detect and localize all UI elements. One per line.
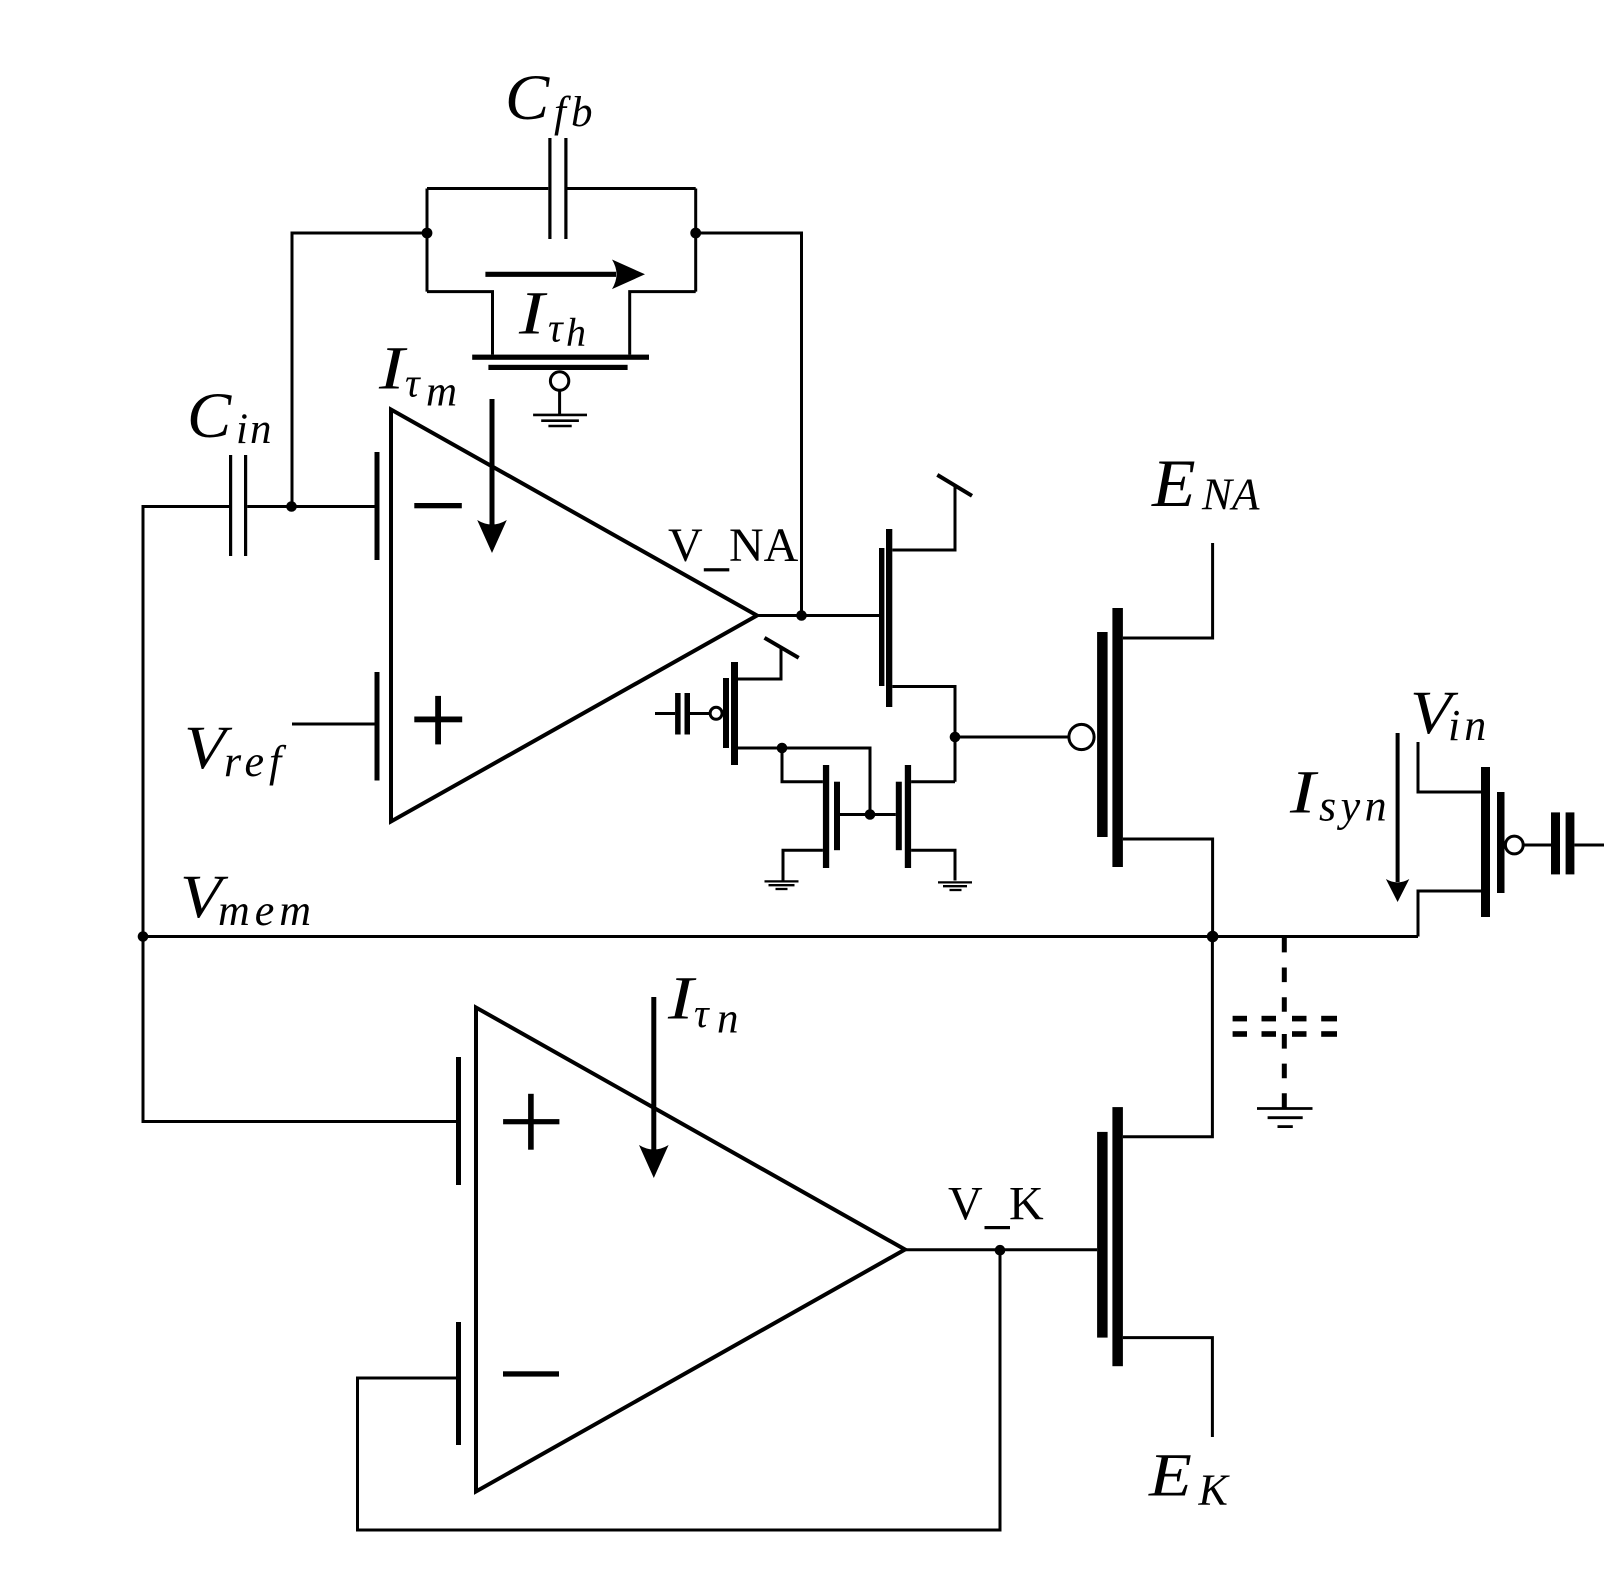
wire M7 gate to capacitor xyxy=(1523,844,1604,847)
svg-text:τ: τ xyxy=(405,360,421,406)
node dot mirror gates xyxy=(865,809,876,820)
wire M1 source to node xyxy=(892,687,1069,782)
wire into M4 gate capacitor xyxy=(655,712,710,715)
plus sign U2 xyxy=(503,1094,559,1150)
wire M4 source node to M2 and mirror gates xyxy=(738,748,870,815)
svg-text:C: C xyxy=(505,62,550,134)
minus sign U2 xyxy=(503,1371,559,1376)
bubble of Mh gate xyxy=(550,372,568,390)
wire M6 source to E_K xyxy=(1123,1338,1213,1437)
wire Cin right to op-amp minus input xyxy=(247,505,374,508)
svg-text:I: I xyxy=(378,334,408,402)
wire Cin left to Vmem rail and down to lower OTA + input xyxy=(143,507,456,1122)
bubble of M7 gate xyxy=(1505,836,1523,854)
bubble of M5 gate xyxy=(1069,724,1094,749)
node dot left of Cfb box xyxy=(422,228,433,239)
dashed membrane capacitor wire top xyxy=(1282,938,1287,1012)
svg-text:in: in xyxy=(236,406,273,453)
plus sign U1 xyxy=(414,696,462,745)
ground under M3 xyxy=(938,882,972,890)
op-amp U2 plus input gate bar xyxy=(456,1057,461,1185)
transistor M4 (pMOS with capacitor gate) xyxy=(675,662,738,765)
wire M4 drain stub xyxy=(738,648,781,679)
svg-text:K: K xyxy=(1009,1178,1044,1231)
minus sign U1 xyxy=(414,503,462,508)
svg-text:n: n xyxy=(717,996,739,1043)
wire V_mem rail xyxy=(143,935,1418,938)
transistor Mh (pMOS under Cfb, grounded gate) xyxy=(472,355,649,370)
ground under Mh xyxy=(533,415,587,426)
node dot M4 source xyxy=(777,743,788,754)
wire M7 source to Vmem xyxy=(1418,891,1481,937)
svg-text:I: I xyxy=(518,279,548,347)
wire U1 output to M1 gate xyxy=(757,614,879,617)
svg-text:m: m xyxy=(426,369,457,416)
wire M2 source to ground xyxy=(783,850,823,880)
wire V_K feedback to U2 minus input xyxy=(358,1250,1001,1530)
label I_tau_h xyxy=(518,279,586,355)
svg-text:in: in xyxy=(1448,701,1490,750)
node dot M1 source xyxy=(950,732,961,743)
wire M5 drain to E_NA xyxy=(1123,543,1213,638)
node dot at Cin right xyxy=(286,501,297,512)
label E_K xyxy=(1148,1442,1231,1515)
wire mirror gates xyxy=(840,813,896,816)
op-amp U2 triangle xyxy=(476,1008,905,1492)
bubble of M4 gate xyxy=(710,707,722,719)
svg-text:NA: NA xyxy=(729,519,799,572)
wire Cfb feedback box xyxy=(427,189,696,355)
slash tick on M1 drain xyxy=(937,475,972,496)
slash tick on M4 drain xyxy=(765,638,799,658)
svg-text:fb: fb xyxy=(554,89,597,136)
op-amp U1 triangle xyxy=(391,410,757,822)
op-amp U1 minus input gate bar xyxy=(375,452,380,560)
capacitor Cin plates xyxy=(229,455,247,556)
transistor M1 (nMOS top of cascode) xyxy=(879,529,892,707)
svg-text:C: C xyxy=(187,380,232,452)
capacitor Cfb plates xyxy=(548,138,567,239)
transistor M5 (pMOS to E_NA) xyxy=(1097,608,1123,867)
arrow I_tau_m inside U1 xyxy=(477,399,507,553)
label E_NA xyxy=(1151,447,1260,522)
node dot V_K xyxy=(995,1245,1006,1256)
arrow I_syn xyxy=(1386,733,1409,902)
svg-text:τ: τ xyxy=(548,305,564,351)
ground under M2 xyxy=(765,881,799,889)
node V_NA dot xyxy=(796,610,807,621)
node dot Vmem at M5/M6 xyxy=(1207,931,1219,943)
label V_NA xyxy=(668,519,799,572)
dashed membrane capacitor wire bottom xyxy=(1282,1034,1287,1109)
arrow I_tau_n inside U2 xyxy=(639,997,669,1178)
svg-text:V: V xyxy=(948,1178,983,1231)
transistor M3 (nMOS mirror right) xyxy=(896,765,911,868)
svg-text:syn: syn xyxy=(1319,782,1391,831)
svg-text:E: E xyxy=(1148,1442,1192,1510)
ground under membrane capacitor xyxy=(1257,1109,1313,1127)
wire U2 output V_K xyxy=(905,1248,1097,1251)
node dot Vmem left xyxy=(138,931,149,942)
svg-text:E: E xyxy=(1151,447,1196,522)
wire Cfb box right node down to V_NA node xyxy=(696,233,802,616)
wire V_in lead xyxy=(1418,742,1481,792)
wire M3 source to ground xyxy=(911,850,955,880)
node dot right of Cfb box xyxy=(690,228,701,239)
label C_fb xyxy=(505,62,597,136)
label V_mem xyxy=(180,863,316,935)
wire Cfb box left node to Cin node xyxy=(292,233,427,507)
label V_ref xyxy=(184,714,287,786)
label V_in xyxy=(1410,679,1490,750)
transistor M2 (nMOS mirror left) xyxy=(823,765,840,868)
wire M3 drain xyxy=(911,780,955,783)
svg-text:h: h xyxy=(566,310,586,355)
label I_tau_n xyxy=(667,964,739,1043)
svg-text:τ: τ xyxy=(694,990,710,1036)
op-amp U1 plus input gate bar xyxy=(375,672,380,781)
dashed membrane capacitor plates xyxy=(1233,1016,1337,1037)
label C_in xyxy=(187,380,273,453)
wire M1 drain stub xyxy=(892,486,955,550)
wire V_ref lead xyxy=(292,723,375,726)
label I_syn xyxy=(1289,758,1391,831)
svg-text:I: I xyxy=(667,964,697,1032)
transistor M7 (pMOS V_in synapse) xyxy=(1481,767,1574,917)
svg-text:I: I xyxy=(1289,758,1319,826)
label I_tau_m xyxy=(378,334,457,416)
svg-text:V: V xyxy=(668,519,703,572)
wire M5 source to Vmem xyxy=(1123,839,1213,937)
svg-text:K: K xyxy=(1198,1466,1231,1515)
label V_K xyxy=(948,1178,1044,1231)
op-amp U2 minus input gate bar xyxy=(456,1322,461,1445)
wire M6 drain to Vmem xyxy=(1123,937,1213,1137)
transistor M6 (nMOS to E_K) xyxy=(1097,1107,1123,1366)
svg-text:ref: ref xyxy=(224,737,287,786)
wire Mh gate stub xyxy=(558,390,561,414)
arrow I_tau_h xyxy=(485,260,645,290)
svg-text:NA: NA xyxy=(1201,470,1260,520)
svg-text:mem: mem xyxy=(218,886,316,935)
